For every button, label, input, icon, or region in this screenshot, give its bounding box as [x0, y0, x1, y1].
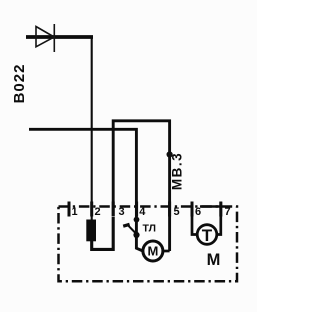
svg-text:М: М — [147, 243, 158, 258]
wire terminal 3 to terminal 5 (upper bridge) — [113, 121, 169, 251]
heater element (filled rectangle) — [86, 220, 96, 242]
svg-text:5: 5 — [174, 206, 180, 218]
wire L2 supply to terminal 4 and switch down to motor — [29, 129, 143, 251]
terminal tick 1 — [68, 202, 71, 217]
svg-text:Т: Т — [202, 226, 213, 245]
svg-text:2: 2 — [95, 206, 101, 218]
svg-text:1: 1 — [72, 206, 78, 218]
wire L1 supply (thick top wire) — [26, 35, 93, 39]
motor M circle — [143, 241, 163, 261]
junction dot on МВ.3 wire — [167, 151, 173, 157]
terminal tick 5 — [168, 202, 171, 217]
wire motor to terminal 5 line — [163, 250, 170, 253]
wire terminal 7 to thermostat — [217, 202, 221, 235]
terminal tick 4 — [135, 202, 138, 217]
svg-text:6: 6 — [195, 206, 201, 218]
terminal tick 6 — [191, 202, 194, 217]
wire terminal 6 to thermostat — [192, 202, 197, 235]
svg-text:МВ.3: МВ.3 — [170, 152, 185, 190]
svg-text:М: М — [207, 251, 221, 269]
svg-text:4: 4 — [139, 206, 146, 218]
enclosure box (dash-dot) — [59, 207, 238, 282]
svg-text:ТЛ: ТЛ — [143, 223, 157, 235]
terminal tick 3 — [112, 202, 115, 217]
terminal tick 2 — [90, 202, 93, 217]
svg-text:В022: В022 — [11, 64, 28, 104]
wire from plug corner down to terminal 2 — [91, 37, 93, 220]
switch ТЛ upper contact — [134, 217, 140, 223]
switch ТЛ lever end tick — [123, 224, 129, 226]
switch ТЛ lever — [127, 225, 136, 234]
terminal tick 7 — [219, 202, 222, 217]
switch ТЛ lower contact — [133, 232, 139, 238]
svg-text:7: 7 — [225, 206, 231, 218]
thermostat T circle — [197, 225, 217, 245]
plug X1 (220V plug symbol) — [36, 24, 54, 52]
wire resistor bottom U to terminal 3 — [92, 217, 114, 249]
wire link terminal 6 to 7 (top border long dash) — [200, 205, 221, 208]
svg-text:3: 3 — [119, 206, 125, 218]
